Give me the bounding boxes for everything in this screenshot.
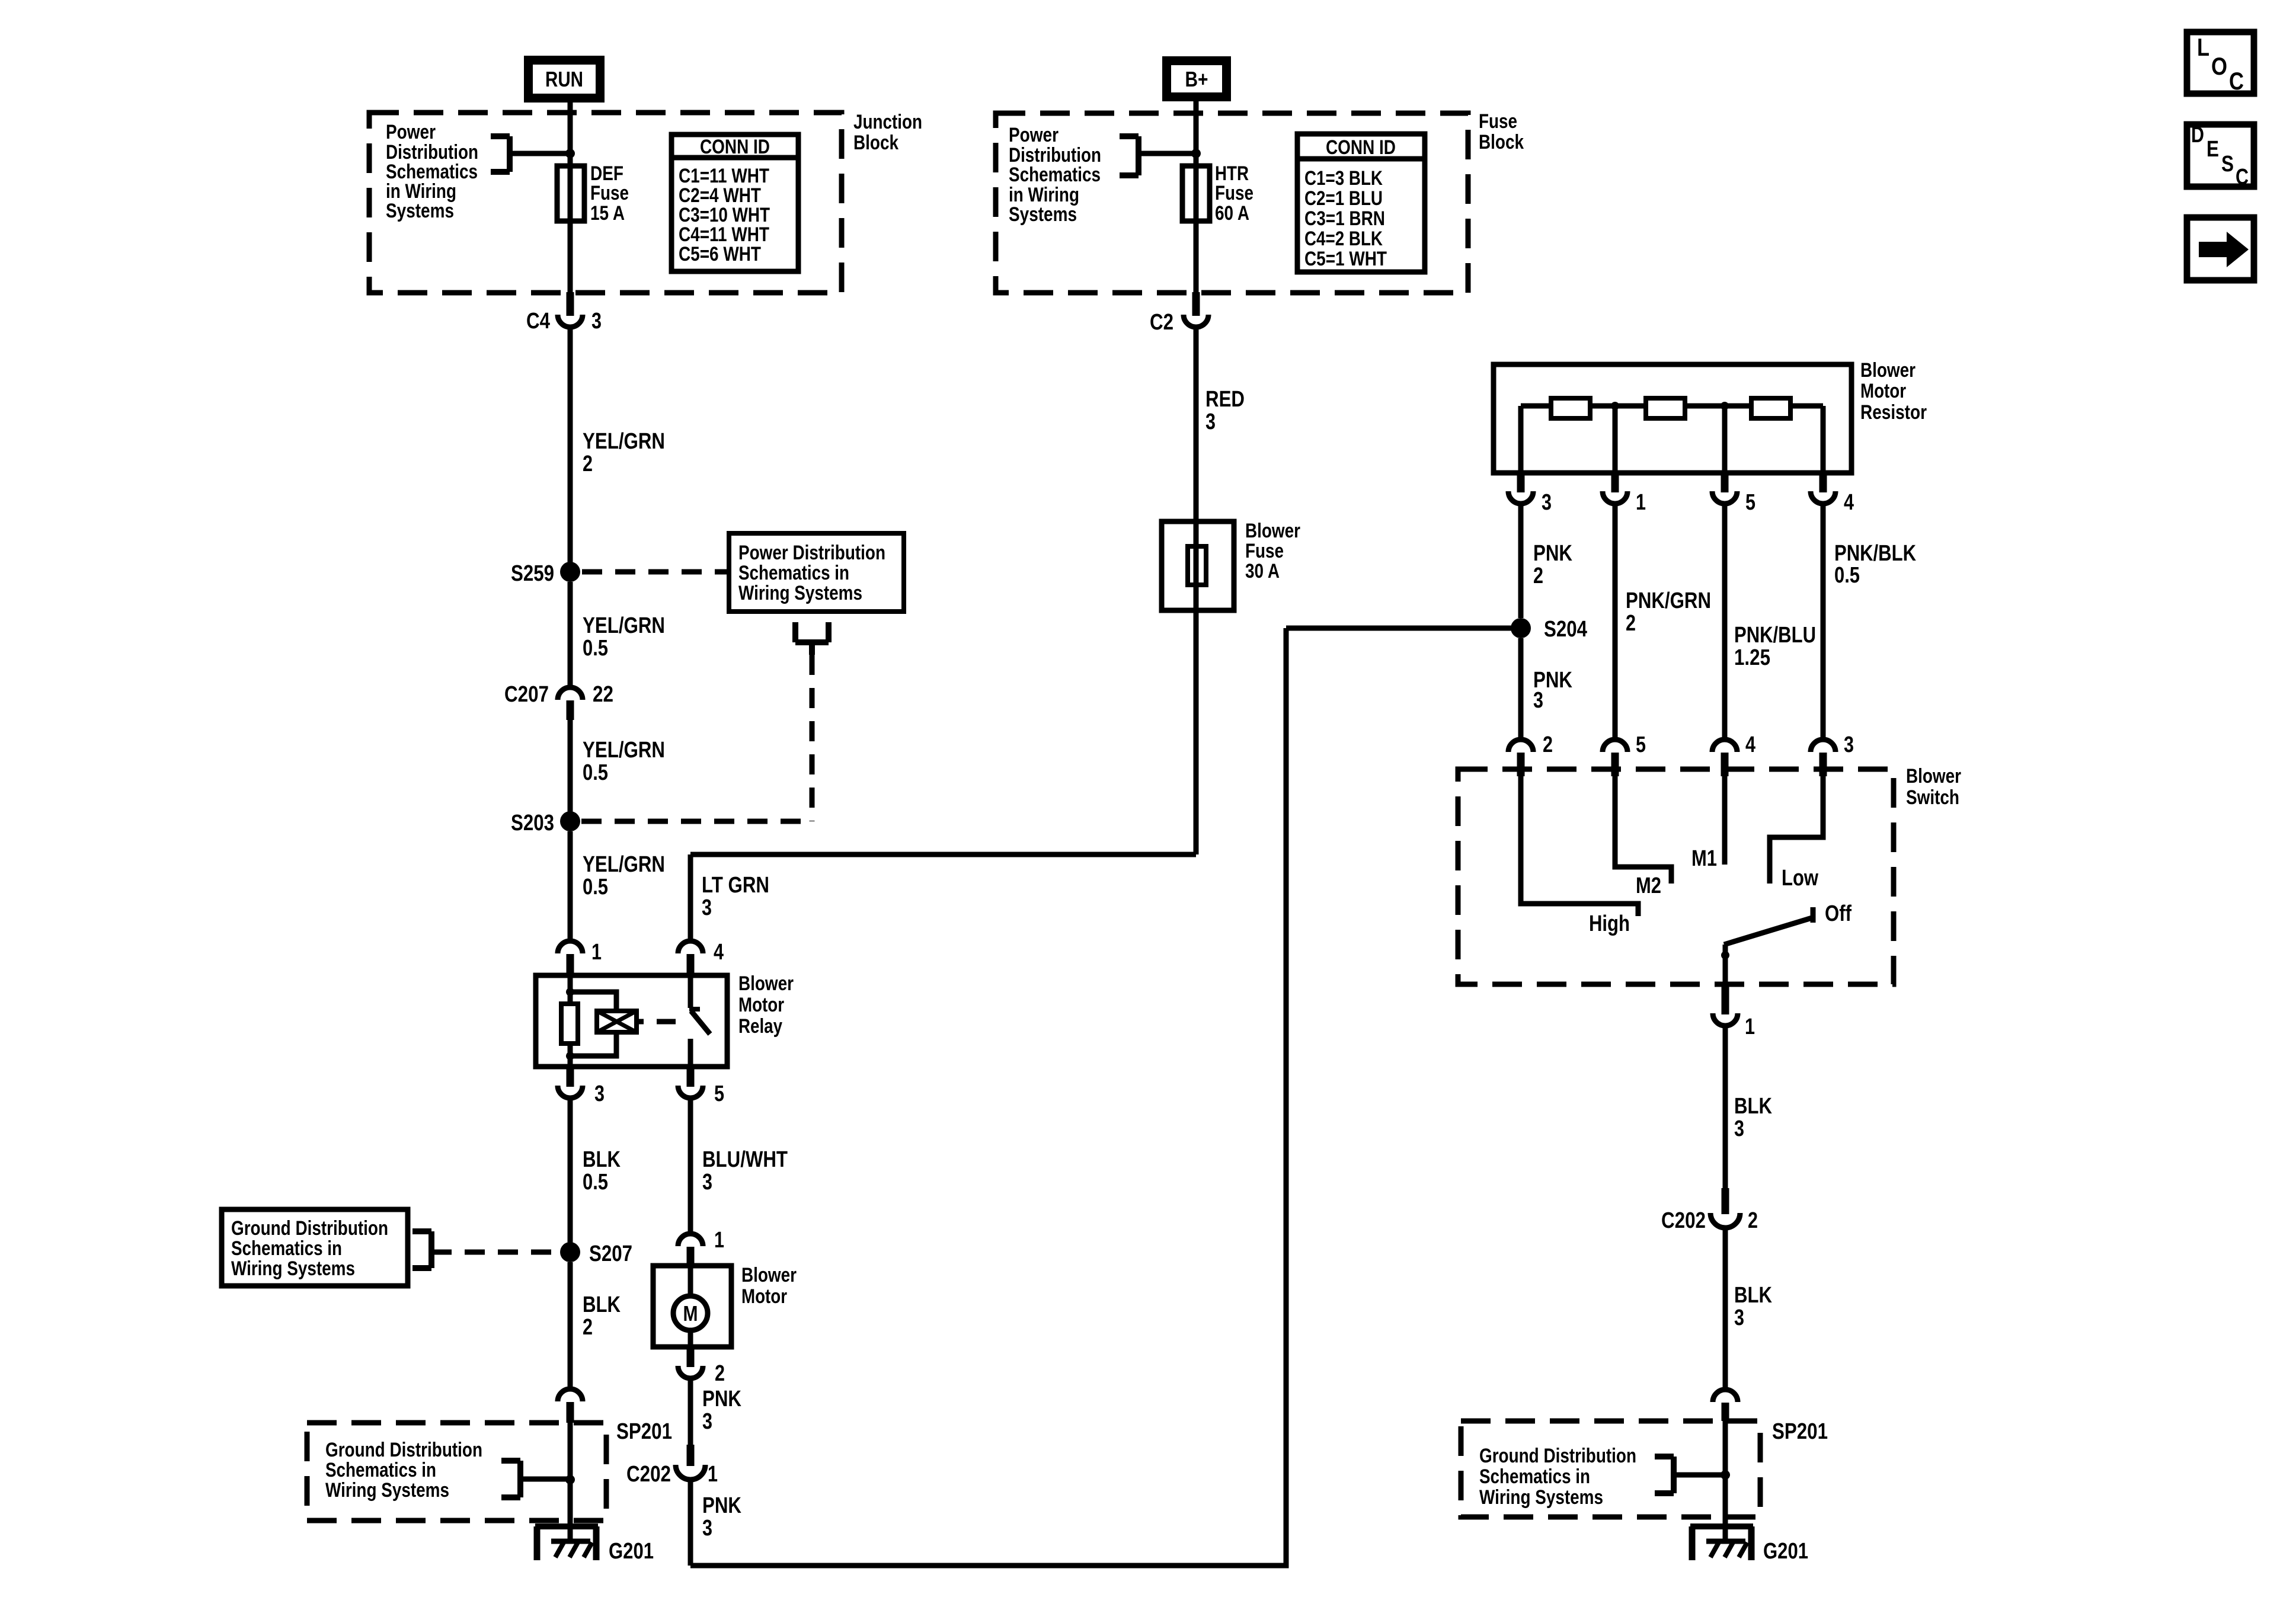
label pin 1 (C202 left)	[708, 1462, 718, 1487]
node at HTR fuse feed	[1191, 149, 1201, 158]
blower motor resistor box	[1494, 364, 1851, 473]
blower switch dashed box	[1458, 769, 1894, 984]
svg-text:C4: C4	[526, 309, 550, 334]
resistor element R2	[1646, 398, 1685, 418]
svg-text:S259: S259	[511, 561, 554, 586]
wire SP201 to ground (left)	[568, 1423, 573, 1526]
svg-text:0.5: 0.5	[583, 875, 608, 900]
svg-text:YEL/GRN: YEL/GRN	[583, 613, 665, 638]
wire LT GRN drop to relay pin 4	[688, 854, 693, 939]
wire resistor pin 3 to S204 (PNK 2)	[1518, 505, 1524, 618]
bracket from Power Distribution text (left)	[491, 136, 510, 172]
svg-text:Block: Block	[853, 132, 898, 154]
blower motor M symbol	[673, 1266, 708, 1347]
label HTR Fuse 60 A	[1215, 162, 1253, 225]
relay switch contact	[689, 975, 710, 1067]
DESC icon box	[2187, 123, 2254, 190]
svg-text:C: C	[2236, 165, 2249, 190]
switch connector pin 4	[1712, 740, 1737, 776]
wire bracket to node	[510, 151, 570, 156]
wire C202 to bottom run (PNK 3)	[688, 1480, 693, 1566]
relay node bottom	[566, 1052, 574, 1060]
svg-text:C4=2 BLK: C4=2 BLK	[1304, 228, 1383, 250]
SP201 dashed box (left)	[307, 1423, 606, 1521]
label Blower Motor Relay	[738, 972, 794, 1038]
svg-text:C1=3 BLK: C1=3 BLK	[1304, 167, 1383, 190]
svg-text:Blower: Blower	[1860, 359, 1916, 382]
wire RUN box to DEF fuse	[568, 103, 573, 295]
svg-text:Blower: Blower	[1906, 765, 1961, 788]
switch High contact	[1521, 776, 1638, 916]
dashed link bracket to S203	[581, 655, 812, 821]
svg-text:15 A: 15 A	[590, 202, 625, 225]
label pin 2 (switch)	[1543, 732, 1553, 757]
switch Low contact	[1770, 776, 1823, 884]
svg-text:Schematics in: Schematics in	[738, 562, 849, 584]
svg-text:Blower: Blower	[738, 972, 794, 995]
label Fuse Block	[1479, 110, 1524, 153]
label PNK 3 (below S204)	[1533, 668, 1572, 713]
label BLU/WHT 3	[702, 1147, 788, 1195]
connector C207 pin 22	[558, 687, 583, 720]
resistor bus wire	[1521, 406, 1823, 473]
ground node (left)	[565, 1475, 575, 1484]
svg-text:Systems: Systems	[386, 200, 454, 222]
svg-text:PNK: PNK	[702, 1387, 741, 1411]
switch connector pin 1	[1713, 984, 1738, 1026]
label pin 4 (relay)	[714, 940, 724, 965]
bracket (SP201 right)	[1655, 1457, 1674, 1493]
resistor element R1	[1551, 398, 1590, 418]
svg-text:C2: C2	[1150, 310, 1173, 335]
blower fuse element	[1188, 521, 1206, 610]
wire B+ to HTR fuse	[1194, 101, 1199, 295]
svg-text:Switch: Switch	[1906, 786, 1959, 809]
label PNK/GRN 2	[1626, 588, 1711, 636]
relay coil to contact dashed link	[637, 1019, 676, 1025]
svg-text:3: 3	[702, 895, 712, 920]
SP201 dashed box (right)	[1461, 1421, 1760, 1517]
svg-text:S207: S207	[589, 1241, 632, 1266]
wire S207 to SP201 (BLK 2)	[568, 1262, 573, 1389]
label YEL/GRN 2	[583, 429, 665, 476]
splice S203	[560, 811, 580, 831]
svg-text:Ground Distribution: Ground Distribution	[1479, 1445, 1636, 1467]
svg-text:BLK: BLK	[583, 1292, 621, 1317]
svg-text:C202: C202	[1661, 1208, 1706, 1233]
bracket from Ground Distribution box	[412, 1231, 431, 1268]
label Blower Motor	[741, 1264, 797, 1308]
switch connector pin 2	[1508, 740, 1533, 776]
label pin 1 (switch)	[1745, 1014, 1755, 1039]
relay connector pin 5	[678, 1067, 703, 1098]
label Power Distribution Schematics in Wiring Systems (fuse block)	[1009, 124, 1101, 226]
label pin 3 (switch)	[1844, 732, 1854, 757]
svg-text:3: 3	[591, 309, 602, 334]
label SP201 (left)	[616, 1419, 672, 1444]
relay connector pin 4	[678, 941, 703, 975]
splice S204	[1511, 618, 1531, 638]
svg-text:Schematics in: Schematics in	[1479, 1465, 1590, 1488]
svg-text:1: 1	[1745, 1014, 1755, 1039]
label C202 (left)	[626, 1462, 671, 1487]
label Off	[1825, 901, 1851, 926]
switch connector pin 3	[1811, 740, 1835, 776]
svg-text:SP201: SP201	[616, 1419, 672, 1444]
svg-text:BLK: BLK	[1734, 1283, 1772, 1308]
wire bottom return run	[690, 628, 1286, 1566]
splice SP201 connector (left)	[558, 1389, 583, 1423]
svg-text:C3=1 BRN: C3=1 BRN	[1304, 207, 1385, 230]
svg-text:YEL/GRN: YEL/GRN	[583, 429, 665, 454]
label PNK/BLU 1.25	[1734, 623, 1816, 670]
blower motor relay box	[536, 975, 727, 1067]
bracket (SP201 left)	[501, 1461, 520, 1497]
resistor bus node 1	[1611, 402, 1619, 410]
wire motor pin 2 to C202 (PNK 3)	[688, 1378, 693, 1447]
wire resistor pin 4 to switch pin 3 (PNK/BLK 0.5)	[1821, 505, 1826, 737]
svg-text:Wiring Systems: Wiring Systems	[1479, 1486, 1603, 1509]
label Blower Fuse 30 A	[1245, 520, 1300, 582]
svg-text:1.25: 1.25	[1734, 645, 1770, 670]
label C4	[526, 309, 550, 334]
wire LT GRN horizontal run	[690, 852, 1196, 857]
label pin 5 (relay)	[714, 1081, 724, 1106]
svg-text:Low: Low	[1782, 866, 1818, 891]
svg-text:CONN ID: CONN ID	[700, 136, 770, 158]
node at DEF fuse feed	[565, 149, 575, 158]
relay node top	[566, 988, 574, 996]
label Power Distribution Schematics in Wiring Systems (junction block)	[386, 121, 478, 222]
svg-text:2: 2	[1626, 611, 1636, 636]
label BLK 2	[583, 1292, 621, 1340]
svg-text:Fuse: Fuse	[590, 182, 629, 204]
svg-text:4: 4	[1844, 490, 1854, 515]
svg-text:High: High	[1589, 911, 1630, 936]
svg-text:2: 2	[583, 1315, 593, 1340]
svg-text:3: 3	[1734, 1305, 1744, 1330]
svg-text:3: 3	[1533, 688, 1543, 713]
svg-text:CONN ID: CONN ID	[1326, 136, 1396, 159]
relay resistor lower wire	[568, 1044, 573, 1067]
label pin 3 (C4)	[591, 309, 602, 334]
svg-text:Power: Power	[386, 121, 436, 143]
label G201 (left)	[609, 1539, 654, 1564]
label Blower Switch	[1906, 765, 1961, 809]
svg-text:Fuse: Fuse	[1215, 182, 1253, 204]
label Blower Motor Resistor	[1860, 359, 1927, 424]
switch Off contact and wiper	[1721, 907, 1813, 984]
relay coil parallel path	[570, 992, 616, 1056]
svg-text:Motor: Motor	[1860, 380, 1906, 402]
label PNK 3 (motor)	[702, 1387, 741, 1434]
wire resistor pin 5 to switch pin 4 (PNK/BLU 1.25)	[1722, 505, 1728, 737]
svg-text:M: M	[683, 1301, 698, 1326]
svg-text:BLK: BLK	[583, 1147, 621, 1172]
svg-text:YEL/GRN: YEL/GRN	[583, 852, 665, 877]
svg-text:3: 3	[702, 1409, 712, 1434]
svg-text:3: 3	[594, 1081, 605, 1106]
svg-text:YEL/GRN: YEL/GRN	[583, 738, 665, 763]
ground G201 (left)	[535, 1526, 598, 1560]
relay connector pin 1	[558, 941, 583, 975]
svg-text:4: 4	[1745, 732, 1755, 757]
svg-text:S203: S203	[511, 811, 554, 836]
svg-text:3: 3	[1844, 732, 1854, 757]
fuse HTR 60A	[1182, 166, 1210, 221]
svg-text:5: 5	[714, 1081, 724, 1106]
svg-text:2: 2	[1533, 564, 1543, 588]
svg-text:3: 3	[702, 1516, 712, 1541]
svg-text:O: O	[2211, 52, 2227, 80]
resistor connector pin 3	[1508, 473, 1533, 504]
label pin 3 (relay)	[594, 1081, 605, 1106]
svg-text:S: S	[2221, 152, 2234, 177]
svg-text:C2=1 BLU: C2=1 BLU	[1304, 187, 1383, 210]
wire C4 to S259 (YEL/GRN 2)	[568, 327, 573, 572]
svg-text:PNK/BLU: PNK/BLU	[1734, 623, 1816, 648]
label YEL/GRN 0.5 (above C207)	[583, 613, 665, 661]
fuse block dashed box	[996, 113, 1468, 293]
svg-text:Power: Power	[1009, 124, 1059, 146]
RUN ignition voltage box	[524, 56, 605, 103]
svg-text:C202: C202	[626, 1462, 671, 1487]
connector C202 pin 2 (right)	[1710, 1188, 1740, 1228]
svg-text:3: 3	[702, 1170, 712, 1195]
wire bracket to ground node (right)	[1674, 1473, 1725, 1478]
label C2	[1150, 310, 1173, 335]
wire C202 to SP201 (BLK 3)	[1723, 1228, 1728, 1390]
wire SP201 to ground (right)	[1723, 1421, 1728, 1526]
wire blower fuse to LT GRN corner	[1194, 610, 1199, 854]
wire S259 to C207 (YEL/GRN 0.5)	[568, 582, 573, 687]
label pin 1 (resistor)	[1636, 490, 1646, 515]
wire bracket to node (fuse block)	[1139, 151, 1196, 156]
svg-text:1: 1	[1636, 490, 1646, 515]
svg-text:C5=1 WHT: C5=1 WHT	[1304, 248, 1387, 270]
svg-text:0.5: 0.5	[583, 760, 608, 785]
B+ battery voltage box	[1162, 56, 1231, 101]
svg-text:SP201: SP201	[1772, 1419, 1828, 1444]
svg-text:PNK: PNK	[1533, 541, 1572, 566]
label M1	[1691, 846, 1717, 871]
switch M1 contact	[1722, 776, 1728, 865]
label RED 3	[1205, 387, 1245, 434]
resistor connector pin 5	[1712, 473, 1737, 504]
svg-text:Schematics in: Schematics in	[325, 1459, 436, 1481]
svg-text:PNK: PNK	[702, 1493, 741, 1518]
svg-text:Fuse: Fuse	[1245, 540, 1284, 562]
label S203	[511, 811, 554, 836]
wire C207 to S203 (YEL/GRN 0.5)	[568, 720, 573, 821]
bracket below Power Distribution box	[795, 622, 829, 655]
svg-text:LT GRN: LT GRN	[702, 873, 769, 898]
resistor element R3	[1751, 398, 1790, 418]
blower motor box	[653, 1266, 731, 1347]
svg-text:0.5: 0.5	[583, 636, 608, 661]
svg-text:1: 1	[714, 1228, 724, 1253]
label G201 (right)	[1763, 1539, 1808, 1564]
wire relay pin 5 to blower motor (BLU/WHT 3)	[688, 1098, 693, 1231]
svg-text:G201: G201	[609, 1539, 654, 1564]
connector C202 pin 1 (left)	[676, 1445, 705, 1480]
svg-text:Motor: Motor	[738, 994, 784, 1016]
label S207	[589, 1241, 632, 1266]
Ground Distribution box (left)	[222, 1209, 408, 1286]
svg-text:Block: Block	[1479, 131, 1524, 153]
label YEL/GRN 0.5 (below S203)	[583, 852, 665, 900]
svg-text:1: 1	[591, 940, 602, 965]
svg-text:2: 2	[1543, 732, 1553, 757]
label High	[1589, 911, 1630, 936]
svg-text:G201: G201	[1763, 1539, 1808, 1564]
svg-text:C207: C207	[504, 682, 549, 707]
label PNK/BLK 0.5	[1834, 541, 1916, 588]
label pin 5 (switch)	[1636, 732, 1646, 757]
svg-text:2: 2	[715, 1361, 725, 1386]
svg-text:Systems: Systems	[1009, 203, 1077, 226]
svg-text:0.5: 0.5	[1834, 563, 1860, 588]
label pin 3 (resistor)	[1542, 490, 1552, 515]
svg-text:2: 2	[583, 452, 593, 476]
wire S203 to relay pin 1 (YEL/GRN 0.5)	[568, 831, 573, 939]
svg-text:Fuse: Fuse	[1479, 110, 1517, 133]
svg-text:1: 1	[708, 1462, 718, 1487]
label pin 22 (C207)	[593, 682, 613, 707]
wire resistor pin 1 to switch pin 5 (PNK/GRN 2)	[1613, 505, 1618, 737]
svg-text:D: D	[2191, 123, 2204, 148]
CONN ID table (fuse block)	[1297, 134, 1425, 272]
connector C4 pin 3	[558, 292, 583, 327]
CONN ID table (junction block)	[671, 135, 798, 271]
label BLK 0.5	[583, 1147, 621, 1195]
svg-text:Ground Distribution: Ground Distribution	[325, 1439, 482, 1461]
svg-text:BLU/WHT: BLU/WHT	[702, 1147, 788, 1172]
label M2	[1636, 873, 1661, 898]
label pin 1 (relay)	[591, 940, 602, 965]
svg-text:Power Distribution: Power Distribution	[738, 542, 885, 564]
svg-text:B+: B+	[1185, 67, 1208, 91]
resistor connector pin 1	[1603, 473, 1627, 504]
junction block dashed box	[369, 113, 842, 293]
label pin 2 (C202 right)	[1748, 1208, 1758, 1233]
label DEF Fuse 15 A	[590, 162, 629, 225]
label PNK 3 (below C202)	[702, 1493, 741, 1541]
svg-text:Motor: Motor	[741, 1285, 787, 1308]
svg-text:30 A: 30 A	[1245, 560, 1280, 582]
label LT GRN 3	[702, 873, 769, 920]
LOC icon box	[2187, 32, 2254, 95]
svg-text:Wiring Systems: Wiring Systems	[738, 582, 862, 604]
wire return to S204	[1286, 626, 1521, 631]
svg-text:C: C	[2229, 67, 2244, 95]
svg-text:0.5: 0.5	[583, 1170, 608, 1195]
svg-text:60 A: 60 A	[1215, 202, 1249, 225]
dashed link to S207	[431, 1250, 559, 1255]
wire relay pin 3 to S207 (BLK 0.5)	[568, 1098, 573, 1252]
relay connector pin 3	[558, 1067, 583, 1098]
label BLK 3 (below C202)	[1734, 1283, 1772, 1330]
blower motor connector pin 2	[678, 1347, 703, 1378]
ground node (right)	[1721, 1470, 1730, 1480]
svg-text:E: E	[2207, 137, 2219, 162]
label pin 2 (blower motor)	[715, 1361, 725, 1386]
svg-text:Wiring Systems: Wiring Systems	[231, 1257, 355, 1280]
svg-text:S204: S204	[1544, 617, 1587, 642]
splice S259	[560, 562, 580, 582]
label Ground Distribution Schematics (SP201 left)	[325, 1439, 482, 1502]
switch M2 contact	[1615, 776, 1671, 884]
svg-text:PNK/BLK: PNK/BLK	[1834, 541, 1916, 566]
svg-text:Off: Off	[1825, 901, 1851, 926]
label pin 5 (resistor)	[1745, 490, 1755, 515]
svg-text:Schematics: Schematics	[1009, 164, 1101, 186]
ground G201 (right)	[1690, 1526, 1753, 1560]
Power Distribution Schematics box (middle)	[729, 533, 904, 612]
label PNK 2	[1533, 541, 1572, 588]
fuse DEF 15A	[557, 166, 584, 221]
label Junction Block	[853, 111, 922, 154]
svg-text:3: 3	[1542, 490, 1552, 515]
svg-text:PNK/GRN: PNK/GRN	[1626, 588, 1711, 613]
svg-text:Wiring Systems: Wiring Systems	[325, 1479, 449, 1502]
svg-text:C5=6 WHT: C5=6 WHT	[679, 243, 761, 265]
wire switch pin 1 to C202 (BLK 3)	[1723, 1026, 1728, 1190]
resistor connector pin 4	[1811, 473, 1835, 504]
svg-text:Relay: Relay	[738, 1015, 782, 1038]
splice SP201 connector (right)	[1713, 1390, 1738, 1421]
svg-text:4: 4	[714, 940, 724, 965]
svg-text:22: 22	[593, 682, 613, 707]
bracket from Power Distribution text (fuse block)	[1120, 136, 1139, 175]
wire S204 to switch pin 2 (PNK 3)	[1518, 638, 1524, 737]
svg-text:Blower: Blower	[741, 1264, 797, 1286]
svg-text:L: L	[2197, 33, 2209, 61]
label pin 1 (blower motor)	[714, 1228, 724, 1253]
svg-text:Schematics in: Schematics in	[231, 1237, 342, 1260]
svg-text:Resistor: Resistor	[1860, 401, 1927, 424]
wire bracket to ground node (left)	[520, 1477, 570, 1482]
svg-text:2: 2	[1748, 1208, 1758, 1233]
label YEL/GRN 0.5 (below C207)	[583, 738, 665, 785]
dashed link S259 to Power Distribution box	[582, 569, 729, 575]
label S259	[511, 561, 554, 586]
splice S207	[560, 1242, 580, 1262]
label C207	[504, 682, 549, 707]
svg-text:BLK: BLK	[1734, 1094, 1772, 1119]
svg-text:M1: M1	[1691, 846, 1717, 871]
svg-text:Junction: Junction	[853, 111, 922, 133]
relay coil branch wire	[568, 975, 573, 1004]
svg-text:M2: M2	[1636, 873, 1661, 898]
svg-text:3: 3	[1205, 409, 1216, 434]
wire C2 to blower fuse (RED 3)	[1194, 327, 1199, 521]
arrow icon box	[2187, 217, 2254, 280]
label C202 (right)	[1661, 1208, 1706, 1233]
relay resistor	[561, 1004, 578, 1044]
label BLK 3 (above C202)	[1734, 1094, 1772, 1141]
relay coil (box with X)	[597, 1011, 637, 1032]
svg-text:Blower: Blower	[1245, 520, 1300, 542]
switch connector pin 5	[1603, 740, 1627, 776]
svg-text:5: 5	[1745, 490, 1755, 515]
svg-text:5: 5	[1636, 732, 1646, 757]
connector C2	[1184, 292, 1208, 327]
svg-text:Ground Distribution: Ground Distribution	[231, 1217, 388, 1240]
svg-text:3: 3	[1734, 1116, 1744, 1141]
blower fuse box	[1162, 521, 1234, 610]
svg-text:RUN: RUN	[545, 67, 583, 91]
